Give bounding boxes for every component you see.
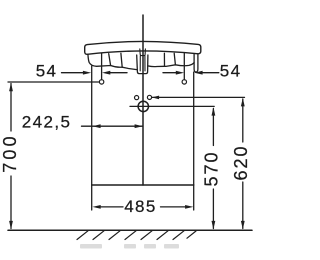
dimension 54 right counter tail	[163, 72, 177, 74]
svg-text:54: 54	[36, 61, 58, 80]
basin underside divider left 1	[109, 54, 111, 66]
dimension 485 line right	[161, 206, 187, 208]
dimension 54 right counter arrow	[176, 71, 184, 75]
dimension 54 left line	[62, 72, 85, 74]
svg-text:54: 54	[220, 61, 242, 80]
dimension 242,5 left arrow	[92, 124, 100, 128]
dimension 485 right arrow	[185, 205, 193, 209]
svg-text:242,5: 242,5	[22, 113, 72, 132]
mounting hole circle right	[182, 80, 186, 84]
cabinet left edge extension	[91, 185, 93, 210]
dimension 570 up arrow	[212, 107, 216, 116]
cabinet bottom edge	[92, 184, 194, 186]
floor hatching	[77, 231, 196, 240]
mounting hole circle left	[99, 80, 103, 84]
cabinet right edge	[193, 72, 195, 185]
svg-text:700: 700	[0, 133, 20, 173]
620 reference arrowhead	[152, 96, 160, 100]
dimension 242,5 right arrow	[135, 124, 143, 128]
drain boss	[137, 55, 148, 74]
700 reference line	[8, 81, 99, 83]
svg-text:620: 620	[231, 144, 251, 180]
basin underside left profile	[88, 54, 137, 69]
dimension 485 line left	[100, 206, 123, 208]
cabinet right edge extension	[193, 185, 195, 210]
cabinet left edge	[91, 66, 93, 185]
washbasin rim	[85, 41, 201, 54]
centerline	[142, 15, 144, 185]
dimension 54 left arrow	[83, 71, 91, 75]
dimension 54 right line	[202, 72, 219, 74]
floor line	[8, 229, 252, 231]
dimension 242,5 line	[82, 125, 143, 127]
dimension 700 up arrow	[9, 83, 13, 92]
dimension 54 right arrow	[194, 71, 202, 75]
watermark blobs	[80, 244, 179, 249]
drain crosshair circle	[138, 101, 148, 111]
basin underside divider right 2	[174, 53, 175, 65]
dimension 700 line upper	[10, 84, 12, 132]
dimension 700 down arrow	[9, 221, 13, 230]
svg-text:485: 485	[124, 197, 157, 216]
dimension 54 left counter tail	[109, 72, 127, 74]
drain boss inner wall left	[139, 56, 141, 71]
dimension 570 line upper	[212, 109, 214, 146]
basin underside divider right 1	[163, 53, 165, 66]
basin right leg	[194, 54, 198, 72]
dimension 700 line lower	[10, 176, 12, 229]
basin underside divider left 2	[121, 53, 122, 67]
dimension 620 down arrow	[241, 221, 245, 230]
dimension 570 line lower	[212, 189, 214, 229]
inlet hole circle left	[135, 96, 139, 100]
dimension 620 line upper	[242, 99, 244, 142]
dimension 620 up arrow	[241, 98, 245, 107]
dimension 485 left arrow	[92, 205, 100, 209]
basin underside right profile	[148, 63, 194, 67]
tap notch	[140, 49, 146, 56]
mounting hole line left	[101, 54, 103, 80]
dimension 570 down arrow	[212, 221, 216, 230]
mounting hole line right	[183, 53, 185, 79]
drain crosshair axis / 570 reference line	[130, 105, 214, 107]
dimension 54 left counter arrow	[102, 71, 110, 75]
inlet hole circle right	[147, 95, 151, 99]
dimension 620 line lower	[242, 182, 244, 229]
620 reference line	[152, 96, 245, 98]
svg-text:570: 570	[201, 150, 221, 186]
drain boss inner wall right	[144, 56, 146, 71]
